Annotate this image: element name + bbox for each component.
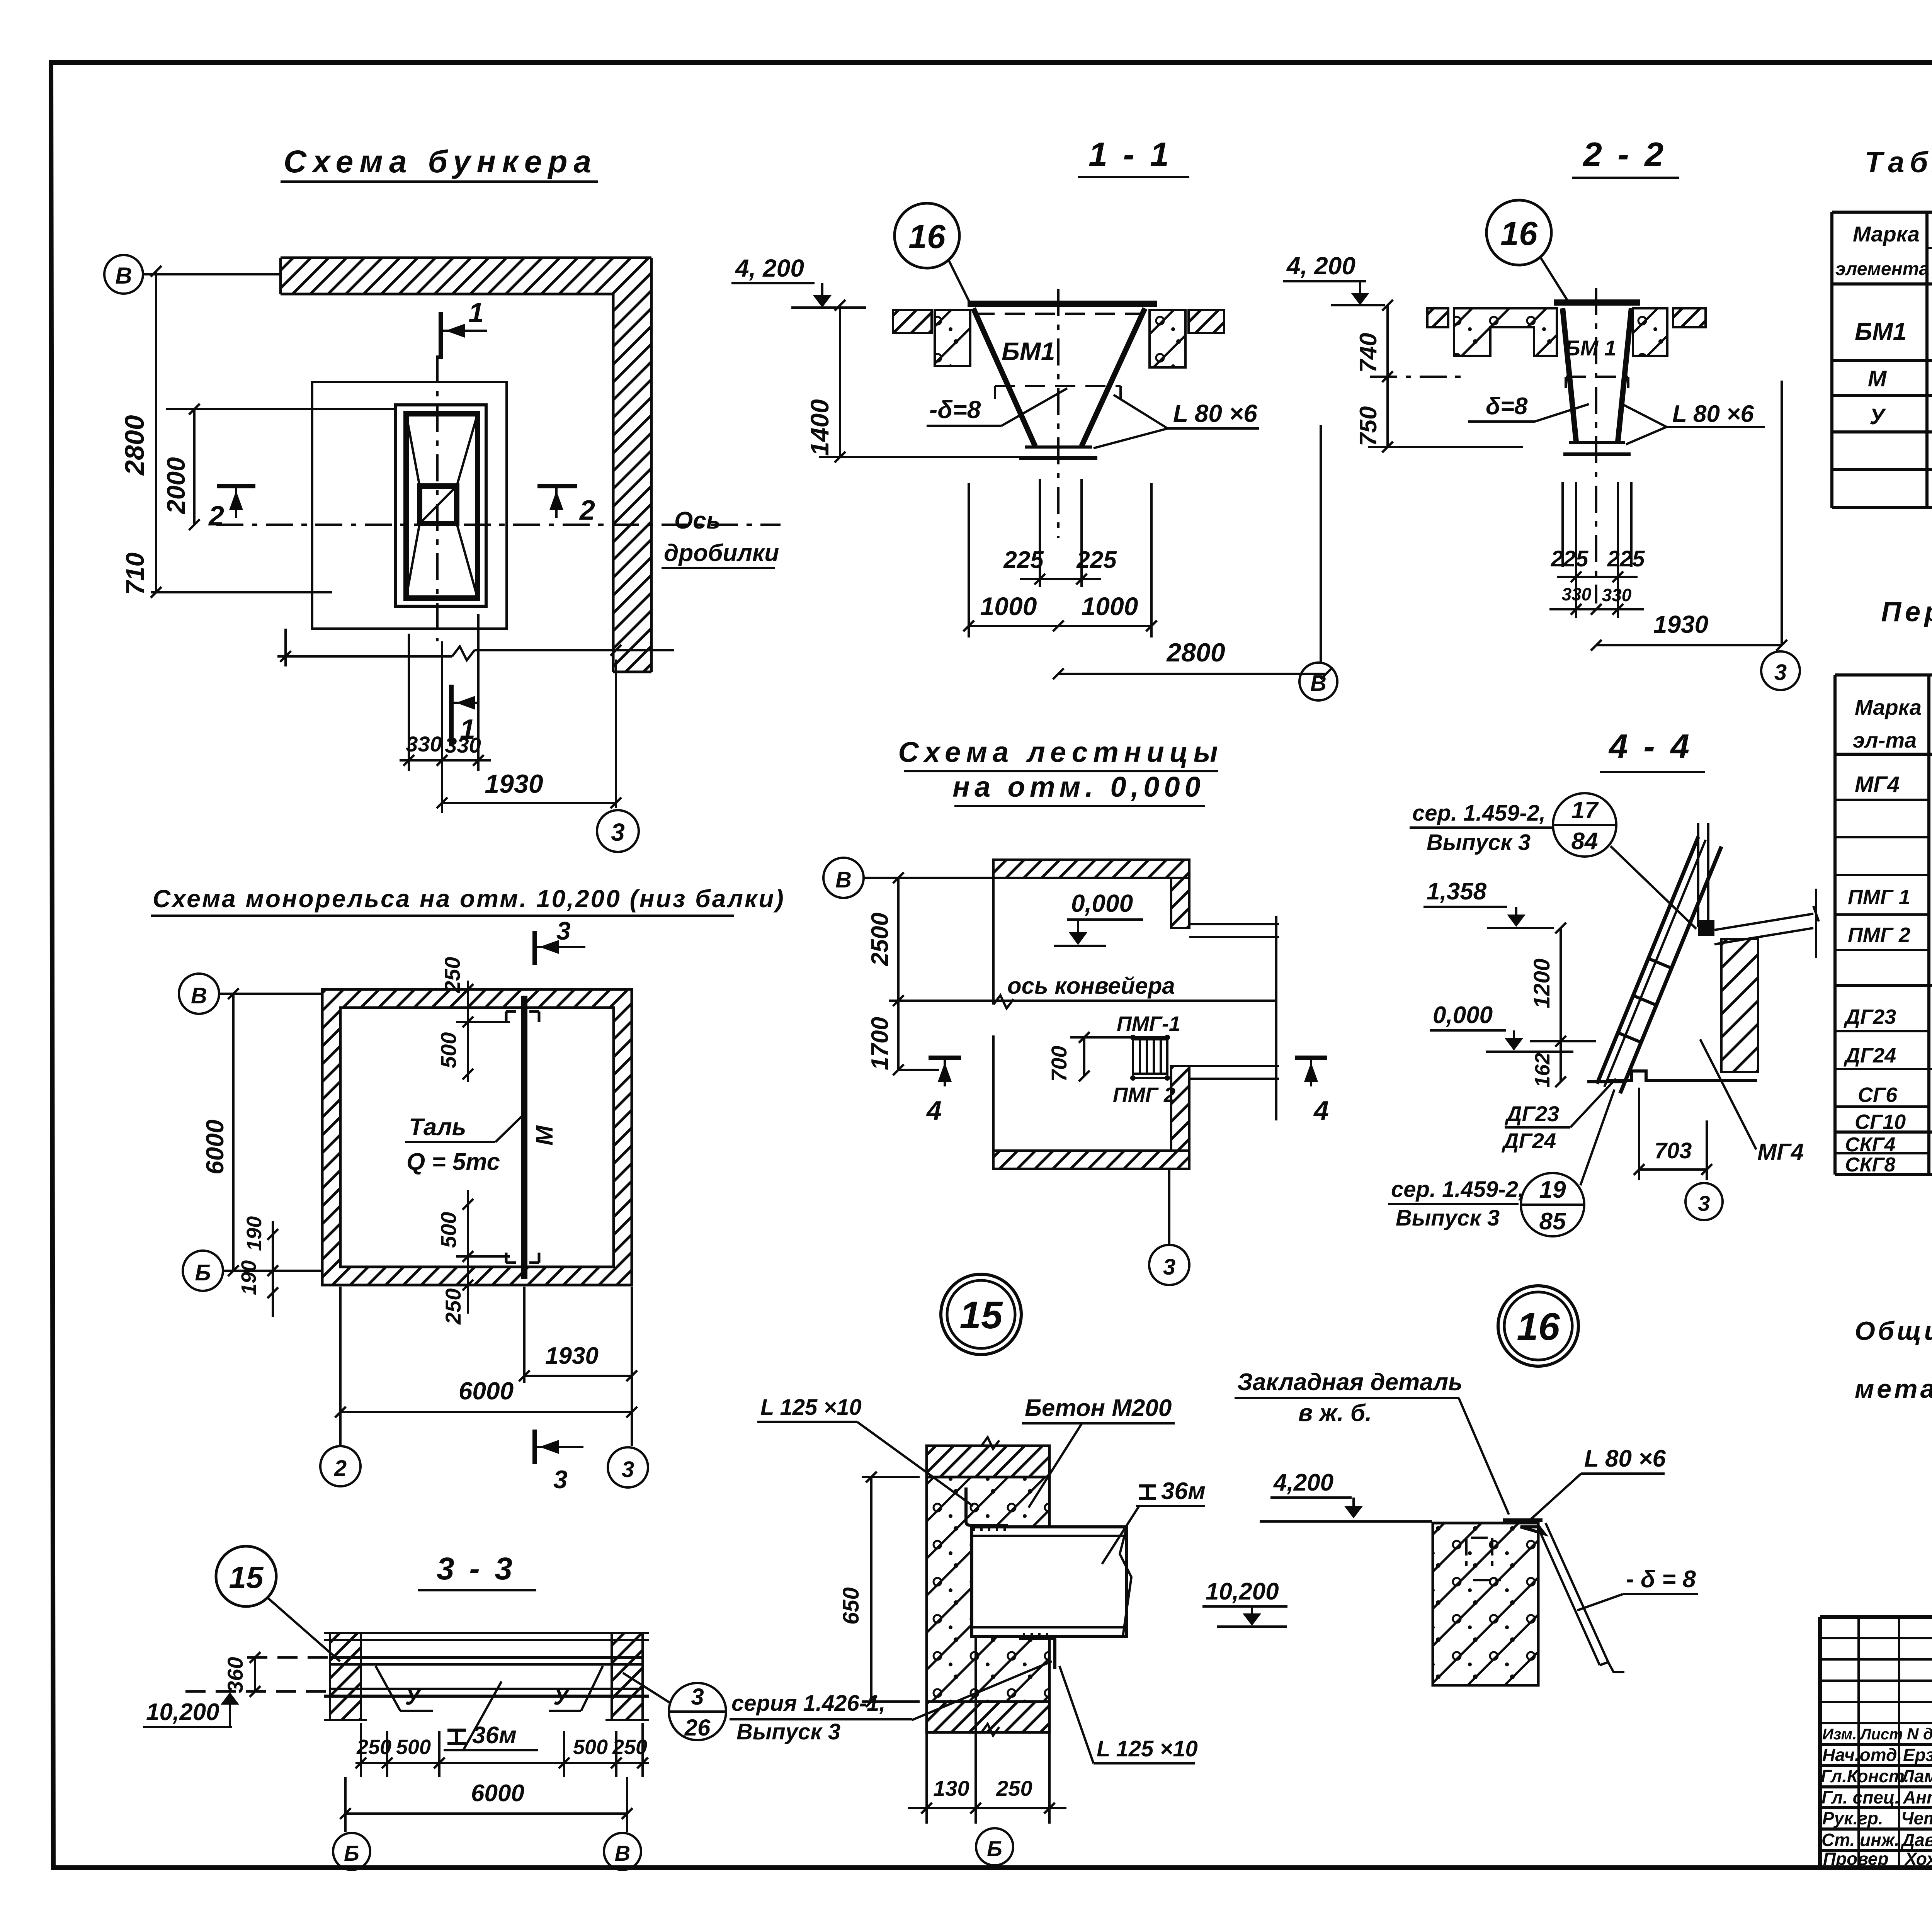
section mark 2 (left) [217,484,255,488]
svg-text:162: 162 [1531,1053,1554,1088]
wall top (hatched) [927,1446,1049,1477]
svg-text:17: 17 [1571,797,1599,824]
dim 1200 [1560,928,1562,1041]
left column (hatched) [330,1633,361,1720]
grid circle В [823,858,864,898]
svg-text:16: 16 [1500,215,1538,252]
svg-text:Давыдова: Давыдова [1900,1830,1932,1850]
svg-text:500: 500 [573,1736,608,1759]
right wall lower [1171,1066,1189,1151]
svg-text:Антонов: Антонов [1903,1787,1932,1807]
dims 130/250 [927,1636,1049,1824]
svg-text:L 80 ×6: L 80 ×6 [1173,399,1257,427]
svg-text:3: 3 [553,1465,568,1494]
svg-text:У: У [405,1684,422,1710]
landing beam (solid) [1698,920,1714,936]
svg-text:3: 3 [1774,660,1787,685]
conveyor gallery walls [1189,924,1279,1079]
section mark 4 (right) [1295,1056,1327,1060]
svg-text:БМ1: БМ1 [1855,318,1906,345]
svg-text:Схема бункера: Схема бункера [284,144,597,179]
upper floor lines [1714,914,1813,944]
svg-text:Общие данные, техническую спец: Общие данные, техническую спецификацию [1855,1316,1932,1346]
svg-text:4: 4 [1313,1095,1329,1125]
svg-text:1930: 1930 [545,1343,599,1369]
svg-text:84: 84 [1571,828,1598,855]
svg-text:360: 360 [223,1657,247,1693]
svg-text:на отм. 0,000: на отм. 0,000 [952,771,1205,803]
svg-text:10,200: 10,200 [146,1699,219,1725]
svg-text:ПМГ 2: ПМГ 2 [1113,1083,1175,1107]
svg-text:85: 85 [1539,1208,1566,1235]
dim 703 [1639,1088,1707,1180]
svg-text:250: 250 [996,1776,1032,1800]
left part grid [1820,1638,1932,1723]
funnel БМ1 top plate [968,301,1157,307]
svg-text:190: 190 [237,1260,260,1295]
extension lines below plan [286,614,616,813]
svg-text:225: 225 [1076,547,1117,573]
svg-text:Провер: Провер [1823,1849,1889,1869]
table grid [1832,212,1932,508]
svg-text:Ст. инж.: Ст. инж. [1821,1830,1900,1850]
svg-text:225: 225 [1551,546,1589,571]
svg-text:2500: 2500 [867,913,893,966]
svg-text:Схема монорельса на отм. 10: Схема монорельса на отм. 10,200 (низ бал… [153,885,785,913]
svg-text:700: 700 [1047,1046,1071,1082]
embedded plate and angle L80x6 [1503,1518,1543,1522]
svg-text:Таблица элементов конструкций: Таблица элементов конструкций [1865,146,1932,179]
horizontal centerline (ось дробилки) [216,524,781,526]
extension lines [969,479,1151,637]
concrete beam (left) [935,310,970,366]
sheet bubble 16 [1498,1286,1578,1366]
grid circle 3 [1761,651,1800,690]
top wall band [993,860,1189,878]
svg-text:L 80 ×6: L 80 ×6 [1584,1445,1666,1472]
svg-text:ДГ24: ДГ24 [1502,1129,1556,1153]
svg-text:Перечень элементов: Перечень элементов [1881,597,1932,627]
svg-text:металла см. листы 1, 2.: металла см. листы 1, 2. [1855,1374,1932,1404]
svg-text:6000: 6000 [471,1780,524,1807]
svg-text:10,200: 10,200 [1206,1578,1279,1605]
beam I36м [972,1527,1127,1636]
svg-text:500: 500 [436,1032,461,1068]
svg-text:16: 16 [1517,1305,1560,1348]
svg-text:Рук.гр.: Рук.гр. [1822,1808,1883,1828]
svg-text:У: У [1869,404,1886,429]
funnel walls [1563,308,1576,442]
section mark 1 (top) [439,312,443,359]
grid circle Б [976,1828,1013,1865]
funnel walls [973,308,1035,446]
svg-text:0,000: 0,000 [1433,1002,1493,1028]
svg-text:БМ 1: БМ 1 [1565,336,1616,360]
dims 500/250 (bottom of beam) [467,1190,469,1314]
dashed pocket line [995,385,1121,387]
dim 2800 [155,271,157,592]
svg-text:1200: 1200 [1529,959,1554,1008]
bunker opening outer rect [396,405,486,606]
ref circle 3/26 [669,1683,726,1740]
grid circle Б [183,1251,223,1291]
svg-text:Марка: Марка [1855,695,1922,719]
svg-text:130: 130 [933,1776,969,1800]
dim 1700 [897,1001,900,1070]
svg-text:26: 26 [684,1715,711,1741]
section mark 3 (top) [532,931,537,965]
base line [1607,1071,1757,1081]
svg-text:1 - 1: 1 - 1 [1088,135,1172,173]
detail circle 16 [1486,200,1551,265]
grid circle 2 [320,1446,361,1486]
sheet bubble 15 [941,1274,1021,1355]
svg-text:МГ4: МГ4 [1855,772,1900,797]
svg-text:2 - 2: 2 - 2 [1582,135,1667,173]
svg-text:1930: 1930 [1653,610,1708,638]
svg-text:2: 2 [334,1456,347,1481]
svg-text:4: 4 [926,1095,942,1125]
centre axis [1595,288,1597,603]
dim 1930 [442,802,616,804]
svg-text:2800: 2800 [119,415,150,476]
concrete double beam (left) [1454,308,1557,356]
inclined strut plate [1537,1523,1624,1672]
svg-text:ДГ23: ДГ23 [1844,1005,1896,1028]
svg-text:Гл.Конст.: Гл.Конст. [1821,1766,1909,1786]
svg-text:650: 650 [838,1587,864,1625]
svg-text:СКГ4: СКГ4 [1845,1134,1895,1156]
svg-text:δ=8: δ=8 [1486,393,1528,420]
svg-text:- δ = 8: - δ = 8 [1626,1566,1696,1593]
svg-text:СКГ8: СКГ8 [1845,1154,1895,1176]
svg-text:СГ6: СГ6 [1858,1083,1898,1107]
svg-text:МГ4: МГ4 [1757,1139,1804,1165]
svg-text:Б: Б [344,1841,359,1865]
monorail beam М [521,996,527,1279]
svg-text:750: 750 [1355,406,1382,446]
svg-text:эл-та: эл-та [1853,728,1917,752]
svg-text:1930: 1930 [485,769,543,799]
bottom dims 250/500/500/250 [361,1723,643,1777]
column feet [324,1719,649,1721]
leader to серия label [912,1661,1052,1720]
concrete beam (right) [1150,310,1185,367]
funnel outlet flanges [1025,445,1092,449]
svg-text:3: 3 [611,818,625,846]
svg-text:3: 3 [1163,1255,1175,1280]
svg-text:Закладная деталь: Закладная деталь [1237,1369,1463,1396]
svg-text:сер. 1.459-2,: сер. 1.459-2, [1391,1177,1524,1202]
svg-text:703: 703 [1655,1138,1692,1163]
svg-text:710: 710 [121,552,149,595]
svg-text:3 - 3: 3 - 3 [437,1551,515,1586]
wall top band (hatched) [281,258,651,294]
svg-text:3: 3 [1698,1191,1710,1215]
svg-text:L 125 ×10: L 125 ×10 [760,1395,862,1420]
svg-text:М: М [531,1125,558,1146]
svg-text:Б: Б [987,1836,1002,1861]
svg-text:1700: 1700 [867,1017,893,1070]
svg-text:2800: 2800 [1166,638,1225,667]
grid circle 3 [1685,1183,1723,1220]
svg-text:Нач.отд.: Нач.отд. [1822,1745,1902,1765]
bottom wall band [993,1151,1189,1169]
svg-text:Б: Б [195,1260,211,1285]
dim 225/225 [1557,576,1638,578]
svg-text:Схема лестницы: Схема лестницы [898,736,1223,768]
svg-text:ось конвейера: ось конвейера [1007,973,1175,999]
detail circle 15 [216,1546,276,1606]
section mark 2 (right) [537,484,577,488]
ladder foot [1587,1080,1624,1083]
dashed top inner line [975,313,1153,315]
svg-text:Ламякин: Ламякин [1901,1766,1932,1786]
svg-text:Марка: Марка [1853,222,1920,246]
dim 1000/1000 [969,625,1151,627]
svg-text:N докум.: N докум. [1907,1725,1932,1743]
svg-text:Лист: Лист [1859,1726,1903,1743]
svg-text:500: 500 [436,1212,461,1248]
svg-text:У: У [553,1684,571,1710]
svg-text:БМ1: БМ1 [1002,337,1055,365]
svg-text:серия 1.426-1,: серия 1.426-1, [731,1691,885,1716]
dim 2000 [193,409,196,525]
dim 2800 [1058,673,1326,675]
svg-text:250: 250 [612,1736,647,1759]
svg-text:L 80 ×6: L 80 ×6 [1672,401,1754,427]
svg-text:Бетон М200: Бетон М200 [1025,1395,1172,1421]
svg-text:225: 225 [1003,547,1044,573]
svg-text:Гл. спец.: Гл. спец. [1821,1787,1900,1807]
detail circle 16 [895,203,959,268]
bottom embedded angle L125x10 [1019,1638,1055,1669]
svg-text:2000: 2000 [162,457,190,515]
anchor dashes in block [1466,1538,1501,1580]
svg-text:L 125 ×10: L 125 ×10 [1097,1736,1198,1761]
floor slab strip (right) [1189,310,1224,333]
svg-text:6000: 6000 [201,1120,229,1175]
svg-text:330: 330 [1562,584,1592,604]
svg-text:250: 250 [356,1736,391,1759]
svg-text:ПМГ-1: ПМГ-1 [1117,1012,1180,1035]
svg-text:Четверикова: Четверикова [1901,1808,1932,1828]
upper landing wall [1698,823,1708,927]
label I 36м [447,1730,466,1743]
floor slab strip (right) [1673,308,1706,327]
grid circle 3 [608,1447,648,1487]
svg-text:Ось: Ось [674,507,721,534]
svg-text:-δ=8: -δ=8 [929,396,981,423]
section mark 3 (bottom) [532,1430,537,1464]
funnel outlet flanges [1569,441,1625,444]
svg-text:16: 16 [908,218,946,255]
dim 700 [1083,1037,1085,1076]
svg-text:Выпуск 3: Выпуск 3 [736,1719,840,1744]
svg-text:4, 200: 4, 200 [735,254,804,282]
svg-text:330: 330 [1602,585,1632,605]
top embedded angle L125x10 [966,1487,1008,1525]
svg-text:элемента: элемента [1835,259,1929,279]
grid line to В [1320,425,1322,663]
section mark 4 (left) [929,1056,961,1060]
svg-text:Выпуск 3: Выпуск 3 [1427,830,1531,855]
svg-text:Изм.: Изм. [1822,1726,1857,1743]
dim 330/330 [1549,608,1644,610]
grid circle Б [333,1833,370,1870]
grid circle В [1299,663,1337,700]
bunker room outline [312,382,507,629]
wall bottom (hatched) [927,1702,1049,1732]
svg-text:6000: 6000 [459,1377,514,1405]
ladder rungs [1617,958,1671,1042]
svg-text:4 - 4: 4 - 4 [1608,727,1692,765]
svg-text:4,200: 4,200 [1273,1469,1333,1496]
right wall upper [1171,878,1189,928]
svg-text:В: В [115,263,132,289]
floor slab strip (left) [1427,308,1448,327]
svg-text:740: 740 [1355,333,1382,373]
svg-text:в ж. б.: в ж. б. [1298,1400,1372,1426]
dim 6000 (left) [232,994,235,1271]
left break line [993,860,1014,1169]
funnel edges [406,414,478,598]
svg-text:ДГ24: ДГ24 [1844,1044,1896,1067]
svg-text:3: 3 [556,916,571,945]
concrete block [1433,1523,1538,1685]
svg-text:ПМГ 1: ПМГ 1 [1848,886,1910,909]
svg-text:1: 1 [468,297,484,328]
dims 190/190 (bottom left) [272,1221,274,1317]
dim 360 [254,1657,256,1691]
svg-text:2: 2 [579,495,595,526]
svg-text:Хохлова: Хохлова [1904,1849,1932,1869]
svg-text:3: 3 [622,1457,634,1482]
funnel throat rect [420,486,457,524]
dim 1930 (bottom) [524,1287,632,1446]
dim 650 [862,1477,920,1702]
dims 250/500 (top of beam) [467,981,469,1082]
floor slab strip (left) [893,310,932,333]
dim 162 [1560,1041,1562,1082]
ref circle 19/85 [1521,1173,1584,1236]
label I36м [1139,1486,1156,1498]
svg-text:В: В [191,983,207,1008]
grid circle В [179,974,219,1014]
concrete beam (right) [1633,308,1667,356]
svg-text:Таль: Таль [409,1114,466,1141]
extension lines [1563,482,1631,618]
svg-text:Выпуск 3: Выпуск 3 [1396,1205,1500,1231]
svg-text:Q = 5тс: Q = 5тс [406,1149,500,1175]
dims 740/750 [1386,305,1389,447]
svg-text:В: В [615,1841,630,1865]
svg-text:сер. 1.459-2,: сер. 1.459-2, [1412,801,1546,826]
svg-text:15: 15 [229,1560,264,1595]
wall right strip (hatched) [613,258,651,672]
svg-text:дробилки: дробилки [664,540,779,566]
svg-text:М: М [1868,366,1887,391]
right column (hatched) [612,1633,643,1720]
grid circle В [104,255,143,294]
svg-text:0,000: 0,000 [1071,889,1133,917]
dim 2500 [897,878,900,1001]
dim 1930 [1596,644,1782,646]
vertical centerline [436,355,439,641]
ref circle 17/84 [1553,793,1616,857]
bunker opening thick rect [406,414,478,598]
dim 1400 [839,305,841,457]
svg-text:2: 2 [208,501,224,532]
grid circle В [604,1833,641,1870]
bottom reference line with break [277,646,674,660]
svg-text:ДГ23: ДГ23 [1505,1102,1559,1126]
svg-text:1000: 1000 [1082,592,1138,620]
svg-text:190: 190 [243,1216,266,1251]
svg-text:250: 250 [441,1289,465,1325]
dim 6000 [345,1777,627,1832]
svg-text:4, 200: 4, 200 [1286,252,1355,280]
svg-text:1000: 1000 [980,592,1037,620]
dashed pocket [1566,376,1628,378]
svg-text:СГ10: СГ10 [1855,1110,1906,1134]
wall below landing (hatched) [1721,939,1758,1072]
slab and beam lines [324,1633,649,1640]
svg-text:225: 225 [1607,546,1645,571]
walls of the room (hatched) [322,989,632,1008]
svg-text:330: 330 [445,733,481,757]
dim 6000 (bottom) [339,1287,342,1446]
svg-text:1,358: 1,358 [1427,878,1487,905]
centre axis [1057,289,1060,538]
svg-text:В: В [1310,671,1327,696]
ladder stringers МГ4 [1597,837,1698,1084]
svg-text:500: 500 [396,1736,431,1759]
dim 330/330 [400,759,491,762]
svg-text:3: 3 [691,1684,704,1710]
svg-text:250: 250 [440,957,464,993]
svg-text:19: 19 [1539,1176,1566,1203]
svg-text:330: 330 [406,732,442,756]
dim 225/225 [1020,578,1101,580]
svg-text:ПМГ 2: ПМГ 2 [1848,923,1910,947]
svg-text:36м: 36м [1161,1478,1206,1504]
svg-text:Ерзнн: Ерзнн [1903,1745,1932,1765]
svg-text:1400: 1400 [805,399,834,456]
funnel БМ1 top plate [1554,299,1640,306]
grid circle 3 [597,810,639,852]
svg-text:15: 15 [959,1294,1003,1337]
table grid [1835,675,1932,1175]
break marks on wall [981,1437,999,1736]
svg-text:В: В [835,867,852,892]
outer box [1820,1617,1932,1868]
svg-text:36м: 36м [472,1722,517,1749]
wall concrete middle [927,1477,1049,1702]
ladder ПМГ [1133,1039,1167,1074]
section mark 1 (bottom) [449,685,454,746]
grid circle 3 [1168,1169,1170,1245]
